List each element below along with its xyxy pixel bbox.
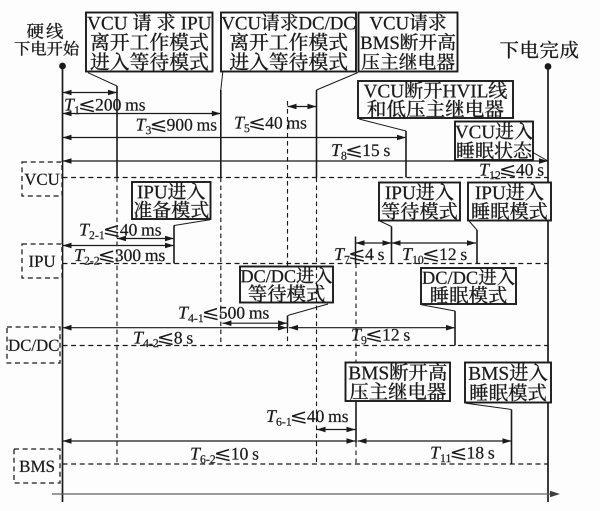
wire: IPU-wait event line bbox=[391, 227, 393, 264]
callout box: IPU进入 等待模式 bbox=[379, 183, 460, 221]
wire: request-DC/DC event line (solid) bbox=[220, 90, 222, 178]
label T6-1≤40 ms bbox=[267, 410, 348, 426]
wire: bottom time axis bbox=[52, 491, 560, 497]
wire: callout tail to DC/DC-sleep event bbox=[422, 305, 456, 311]
node: IPU lifeline label bbox=[22, 244, 62, 278]
wire: request-BMS event line (dashed continuation) bbox=[316, 178, 318, 465]
label T10≤12 s bbox=[403, 248, 466, 264]
label T12≤40 s bbox=[480, 164, 543, 179]
wire: DC/DC lifeline rail bbox=[63, 345, 549, 347]
wire: left timeline (power-down start) bbox=[62, 66, 64, 502]
label T1≤200 ms bbox=[65, 99, 145, 114]
wire: callout tail to HVIL event bbox=[359, 119, 406, 131]
node: hard-wire power-down start label 硬线/下电开始 bbox=[15, 23, 79, 56]
dimension arrow T7 (BMS-open-cmd to IPU-wait) bbox=[356, 242, 392, 244]
wire: request-IPU event line (solid) bbox=[116, 86, 118, 178]
dimension arrow T4-2 (start to DC/DC-wait) bbox=[63, 327, 288, 329]
dimension arrow T2-1 (request-IPU to IPU-ready) bbox=[117, 238, 174, 240]
label T4-2≤8 s bbox=[134, 332, 192, 347]
wire: DC/DC-wait event line (upper dashed) bbox=[287, 101, 289, 267]
callout box: IPU进入 睡眠模式 bbox=[468, 183, 551, 221]
wire: DC/DC-wait event line (lower dashed) bbox=[287, 329, 289, 346]
dimension arrow T9 (DC/DC-wait to DC/DC-sleep) bbox=[289, 327, 455, 329]
wire: BMS-open event line (upper dashed) bbox=[355, 264, 357, 363]
wire: callout tail to request-BMS event bbox=[317, 73, 359, 91]
label T5≤40 ms bbox=[235, 117, 306, 133]
wire: right timeline (power-down complete) bbox=[547, 67, 549, 503]
dimension arrow T11 (BMS-open to BMS-sleep) bbox=[358, 440, 512, 442]
wire: BMS-sleep event line bbox=[511, 410, 513, 465]
dimension arrow T4-1 (request-DC/DC to DC/DC-wait) bbox=[222, 322, 287, 324]
wire: request-BMS event line (solid) bbox=[316, 90, 318, 178]
label T2-2≤300 ms bbox=[75, 249, 165, 264]
callout box: DC/DC进入 等待模式 bbox=[240, 267, 333, 303]
wire: IPU-sleep event line bbox=[476, 230, 478, 264]
dimension arrow T5 (DC/DC-wait to request-BMS) bbox=[288, 106, 317, 108]
wire: DC/DC-wait event line (solid) bbox=[287, 315, 289, 328]
callout box: BMS进入 睡眠模式 bbox=[465, 363, 551, 403]
label T3≤900 ms bbox=[137, 119, 217, 135]
wire: IPU lifeline rail bbox=[63, 263, 549, 265]
node: DC/DC lifeline label bbox=[7, 327, 60, 363]
dimension arrow T10 (IPU-wait to IPU-sleep) bbox=[392, 242, 477, 244]
callout box: VCU请求DC/DC 离开工作模式 进入等待模式 bbox=[221, 13, 356, 72]
callout box: VCU请求 BMS断开高 压主继电器 bbox=[359, 13, 458, 72]
dimension arrow T8 (start to HVIL-open) bbox=[63, 137, 407, 139]
wire: BMS-open event line (solid) bbox=[355, 401, 357, 443]
wire: BMS lifeline rail bbox=[63, 463, 549, 465]
callout box: VCU断开HVIL线 和低压主继电器 bbox=[358, 81, 513, 118]
wire: callout tail to IPU-ready event bbox=[174, 220, 210, 226]
dimension arrow T3 (start to request-DC/DC) bbox=[63, 113, 221, 115]
wire: request-DC/DC event line (dashed continuation) bbox=[220, 178, 222, 346]
label T8≤15 s bbox=[332, 144, 390, 160]
wire: callout tail VCU-sleep to right timeline bbox=[533, 153, 548, 162]
node: VCU lifeline label bbox=[22, 162, 62, 196]
wire: callout tail to IPU-wait event bbox=[380, 221, 392, 227]
node: power-down complete label 下电完成 bbox=[500, 41, 578, 59]
callout box: VCU 请求 IPU 离开工作模式 进入等待模式 bbox=[86, 13, 213, 72]
dimension arrow T1 (start to request-IPU) bbox=[63, 92, 118, 94]
wire: DC/DC-sleep event line bbox=[454, 311, 456, 346]
label T4-1≤500 ms bbox=[179, 307, 269, 322]
callout box: IPU进入 准备模式 bbox=[132, 182, 211, 219]
label T9≤12 s bbox=[352, 329, 409, 345]
wire: IPU-ready event line bbox=[173, 226, 175, 264]
node: BMS lifeline label bbox=[14, 449, 60, 483]
label T6-2≤10 s bbox=[191, 448, 258, 464]
wire: callout tail to request-IPU event bbox=[88, 73, 117, 86]
wire: callout tail to request-DC/DC event bbox=[221, 72, 223, 90]
callout box: BMS断开高 压主继电器 bbox=[346, 363, 451, 402]
node: power-down start dot bbox=[59, 63, 66, 70]
dimension arrow T6-2 (start to BMS-open) bbox=[63, 440, 356, 442]
dimension arrow T12 (start to VCU-sleep) bbox=[63, 160, 549, 162]
label T11≤18 s bbox=[431, 447, 494, 462]
dimension arrow T6-1 (request-BMS to BMS-open) bbox=[317, 429, 356, 431]
label T2-1≤40 ms bbox=[80, 224, 161, 239]
wire: callout tail to DC/DC-wait event bbox=[288, 304, 328, 315]
wire: VCU lifeline rail bbox=[63, 177, 549, 179]
wire: BMS-open dimension tick bbox=[355, 237, 357, 264]
wire: callout tail to IPU-sleep event bbox=[469, 221, 477, 230]
wire: HVIL-open event line bbox=[405, 131, 407, 178]
callout box: VCU进入 睡眠状态 bbox=[455, 122, 533, 161]
callout box: DC/DC进入 睡眠模式 bbox=[421, 268, 516, 304]
wire: callout tail to BMS-sleep event bbox=[466, 403, 512, 409]
label T7≤4 s bbox=[335, 248, 384, 263]
dimension arrow T2-2 (start to IPU-ready) bbox=[63, 245, 175, 247]
node: power-down complete dot bbox=[545, 63, 552, 70]
wire: request-IPU event line (dashed continuation) bbox=[116, 178, 118, 465]
wire: BMS-open event line (lower dashed) bbox=[355, 443, 357, 465]
